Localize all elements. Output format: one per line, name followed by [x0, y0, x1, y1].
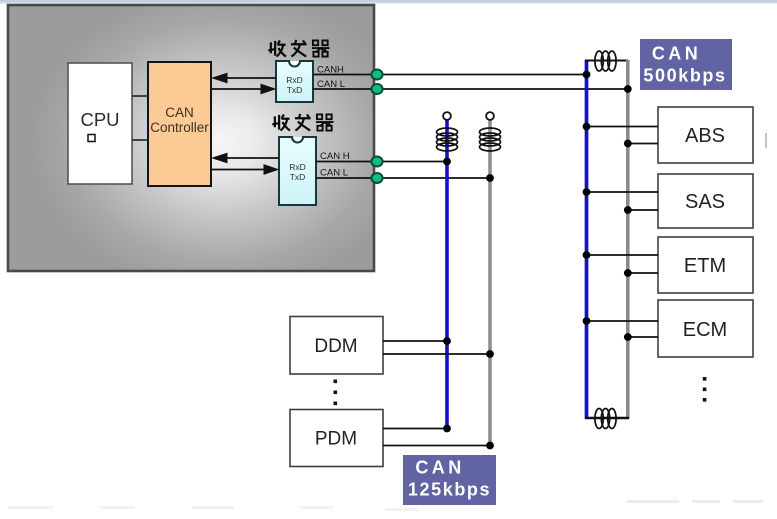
svg-text:ABS: ABS — [685, 125, 725, 147]
wire PDM CAN H — [383, 428, 447, 430]
arrow controller to transceiver1 (TxD) — [211, 84, 277, 95]
wire CPU to controller (upper) — [132, 95, 148, 97]
node CANH exit (green) — [371, 70, 382, 80]
junction DDM on blue — [443, 337, 451, 345]
wire ECM CAN H — [587, 320, 659, 322]
wire DDM CAN L — [383, 353, 490, 355]
svg-text:SAS: SAS — [685, 191, 725, 213]
wire ETM CAN H — [587, 254, 659, 256]
500k bus top termination wire — [585, 60, 628, 62]
svg-text:TxD: TxD — [290, 172, 306, 182]
125k bus CAN H terminator circle — [443, 112, 451, 120]
wire ETM CAN L — [628, 272, 658, 274]
svg-text:PDM: PDM — [315, 429, 357, 450]
transceiver U3 — [279, 137, 316, 205]
label transceiver 2 (Chinese) — [272, 114, 333, 131]
wire ABS CAN H — [587, 126, 659, 128]
svg-text:125kbps: 125kbps — [408, 480, 491, 500]
label CAN 500kbps — [640, 39, 732, 90]
node CANL exit (green) — [371, 84, 382, 94]
500k bus CAN L wire (gray) — [626, 60, 630, 419]
junction PDM on gray — [486, 442, 494, 450]
faint marks bottom left — [8, 506, 418, 511]
junction ECM on blue — [583, 317, 591, 325]
ECU module enclosure panel — [8, 5, 374, 271]
125k bus CAN L wire (gray) — [488, 120, 492, 446]
junction ECM on gray — [624, 333, 632, 341]
wire ABS CAN L — [628, 143, 658, 145]
ABS box — [658, 107, 753, 163]
CAN Controller U2 — [148, 62, 211, 186]
junction ETM on blue — [583, 251, 591, 259]
wire DDM CAN H — [383, 340, 447, 342]
PDM box — [290, 410, 383, 467]
500k bus bottom termination wire — [585, 417, 629, 420]
ECM box — [658, 300, 753, 357]
svg-text:CAN: CAN — [165, 105, 194, 120]
svg-text:CAN L: CAN L — [320, 168, 348, 179]
svg-text:RxD: RxD — [286, 75, 303, 85]
junction CANH on 500k blue — [583, 71, 591, 79]
wire CAN H from transceiver2 to 125k bus — [316, 161, 447, 163]
DDM box — [290, 317, 383, 375]
svg-text:ETM: ETM — [684, 255, 726, 277]
svg-text:CAN: CAN — [415, 458, 464, 478]
junction ETM on gray — [624, 269, 632, 277]
node CAN H exit (green) — [371, 157, 382, 167]
svg-text:Controller: Controller — [150, 120, 209, 135]
junction DDM on gray — [486, 350, 494, 358]
wire CANL from transceiver1 to bus — [313, 88, 627, 90]
wire CPU to controller (lower) — [132, 139, 148, 141]
arrow transceiver1 to controller (RxD) — [211, 73, 276, 84]
junction CANL on 500k gray — [624, 85, 632, 93]
arrow controller to transceiver2 (TxD) — [211, 164, 280, 175]
node CAN L exit (green) — [371, 173, 382, 183]
SAS box — [658, 174, 753, 228]
junction transceiver2 CAN L on gray — [486, 174, 494, 182]
wire PDM CAN L — [383, 445, 490, 447]
CPU status square — [88, 135, 95, 142]
label CAN 125kbps — [403, 455, 496, 505]
CPU box — [68, 63, 132, 184]
stray cursor artifact — [765, 133, 767, 148]
wire ECM CAN L — [628, 336, 658, 338]
arrow transceiver2 to controller (RxD) — [211, 153, 279, 164]
transceiver U1 — [276, 61, 313, 102]
junction PDM on blue — [443, 425, 451, 433]
ETM box — [658, 237, 753, 293]
junction transceiver2 CAN H on blue — [443, 158, 451, 166]
faint watermark bottom right — [627, 500, 763, 503]
junction SAS on gray — [624, 206, 632, 214]
junction SAS on blue — [583, 188, 591, 196]
top blue strip — [0, 0, 777, 3]
svg-text:CANH: CANH — [317, 65, 344, 76]
500k bus bottom termination coil — [595, 409, 616, 429]
wire SAS CAN H — [587, 191, 659, 193]
svg-text:DDM: DDM — [314, 336, 357, 357]
junction ABS on blue — [583, 123, 591, 131]
ellipsis below ECM — [703, 377, 707, 402]
label transceiver 1 (Chinese) — [268, 40, 329, 57]
wire CANH from transceiver1 to bus — [313, 74, 585, 76]
svg-text:TxD: TxD — [287, 85, 303, 95]
svg-text:500kbps: 500kbps — [643, 66, 726, 86]
500k bus CAN H wire (blue) — [585, 60, 589, 419]
125k bus CAN L termination coil — [480, 128, 501, 151]
svg-text:RxD: RxD — [289, 162, 306, 172]
125k bus CAN H wire (blue) — [445, 120, 449, 429]
svg-text:CAN H: CAN H — [320, 151, 350, 162]
svg-text:CAN L: CAN L — [317, 79, 345, 90]
junction ABS on gray — [624, 140, 632, 148]
svg-text:CPU: CPU — [80, 109, 119, 130]
wire SAS CAN L — [628, 209, 658, 211]
500k bus top termination coil — [595, 51, 616, 71]
ellipsis between DDM and PDM — [334, 380, 338, 406]
125k bus CAN L terminator circle — [486, 112, 494, 120]
svg-text:ECM: ECM — [683, 319, 727, 341]
125k bus CAN H termination coil — [437, 128, 458, 151]
wire CAN L from transceiver2 to 125k bus — [316, 177, 490, 179]
svg-text:CAN: CAN — [652, 44, 701, 64]
